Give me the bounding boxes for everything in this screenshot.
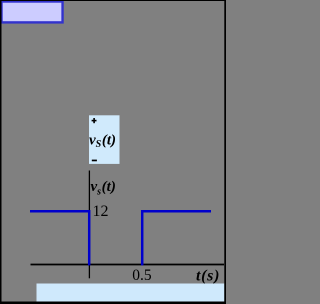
- waveform: left high segment and falling edge at t=0: [30, 211, 89, 265]
- svg-text:vs(t): vs(t): [91, 179, 116, 198]
- outer frame: [0, 0, 226, 304]
- svg-text:0.5: 0.5: [132, 267, 152, 284]
- voltage source VS box: [89, 115, 120, 164]
- svg-text:12: 12: [93, 203, 109, 220]
- svg-text:vS(t): vS(t): [89, 132, 116, 150]
- svg-text:t(s): t(s): [196, 268, 220, 285]
- plus sign (source polarity +): [92, 118, 97, 123]
- graph y-axis: [88, 171, 90, 279]
- lavender button top-left: [2, 2, 63, 23]
- graph t-axis: [31, 264, 225, 266]
- bottom scrollbar strip: [37, 284, 225, 302]
- waveform: rising edge at t=0.5 and right high segment: [142, 211, 211, 265]
- minus sign (source polarity -): [92, 160, 97, 162]
